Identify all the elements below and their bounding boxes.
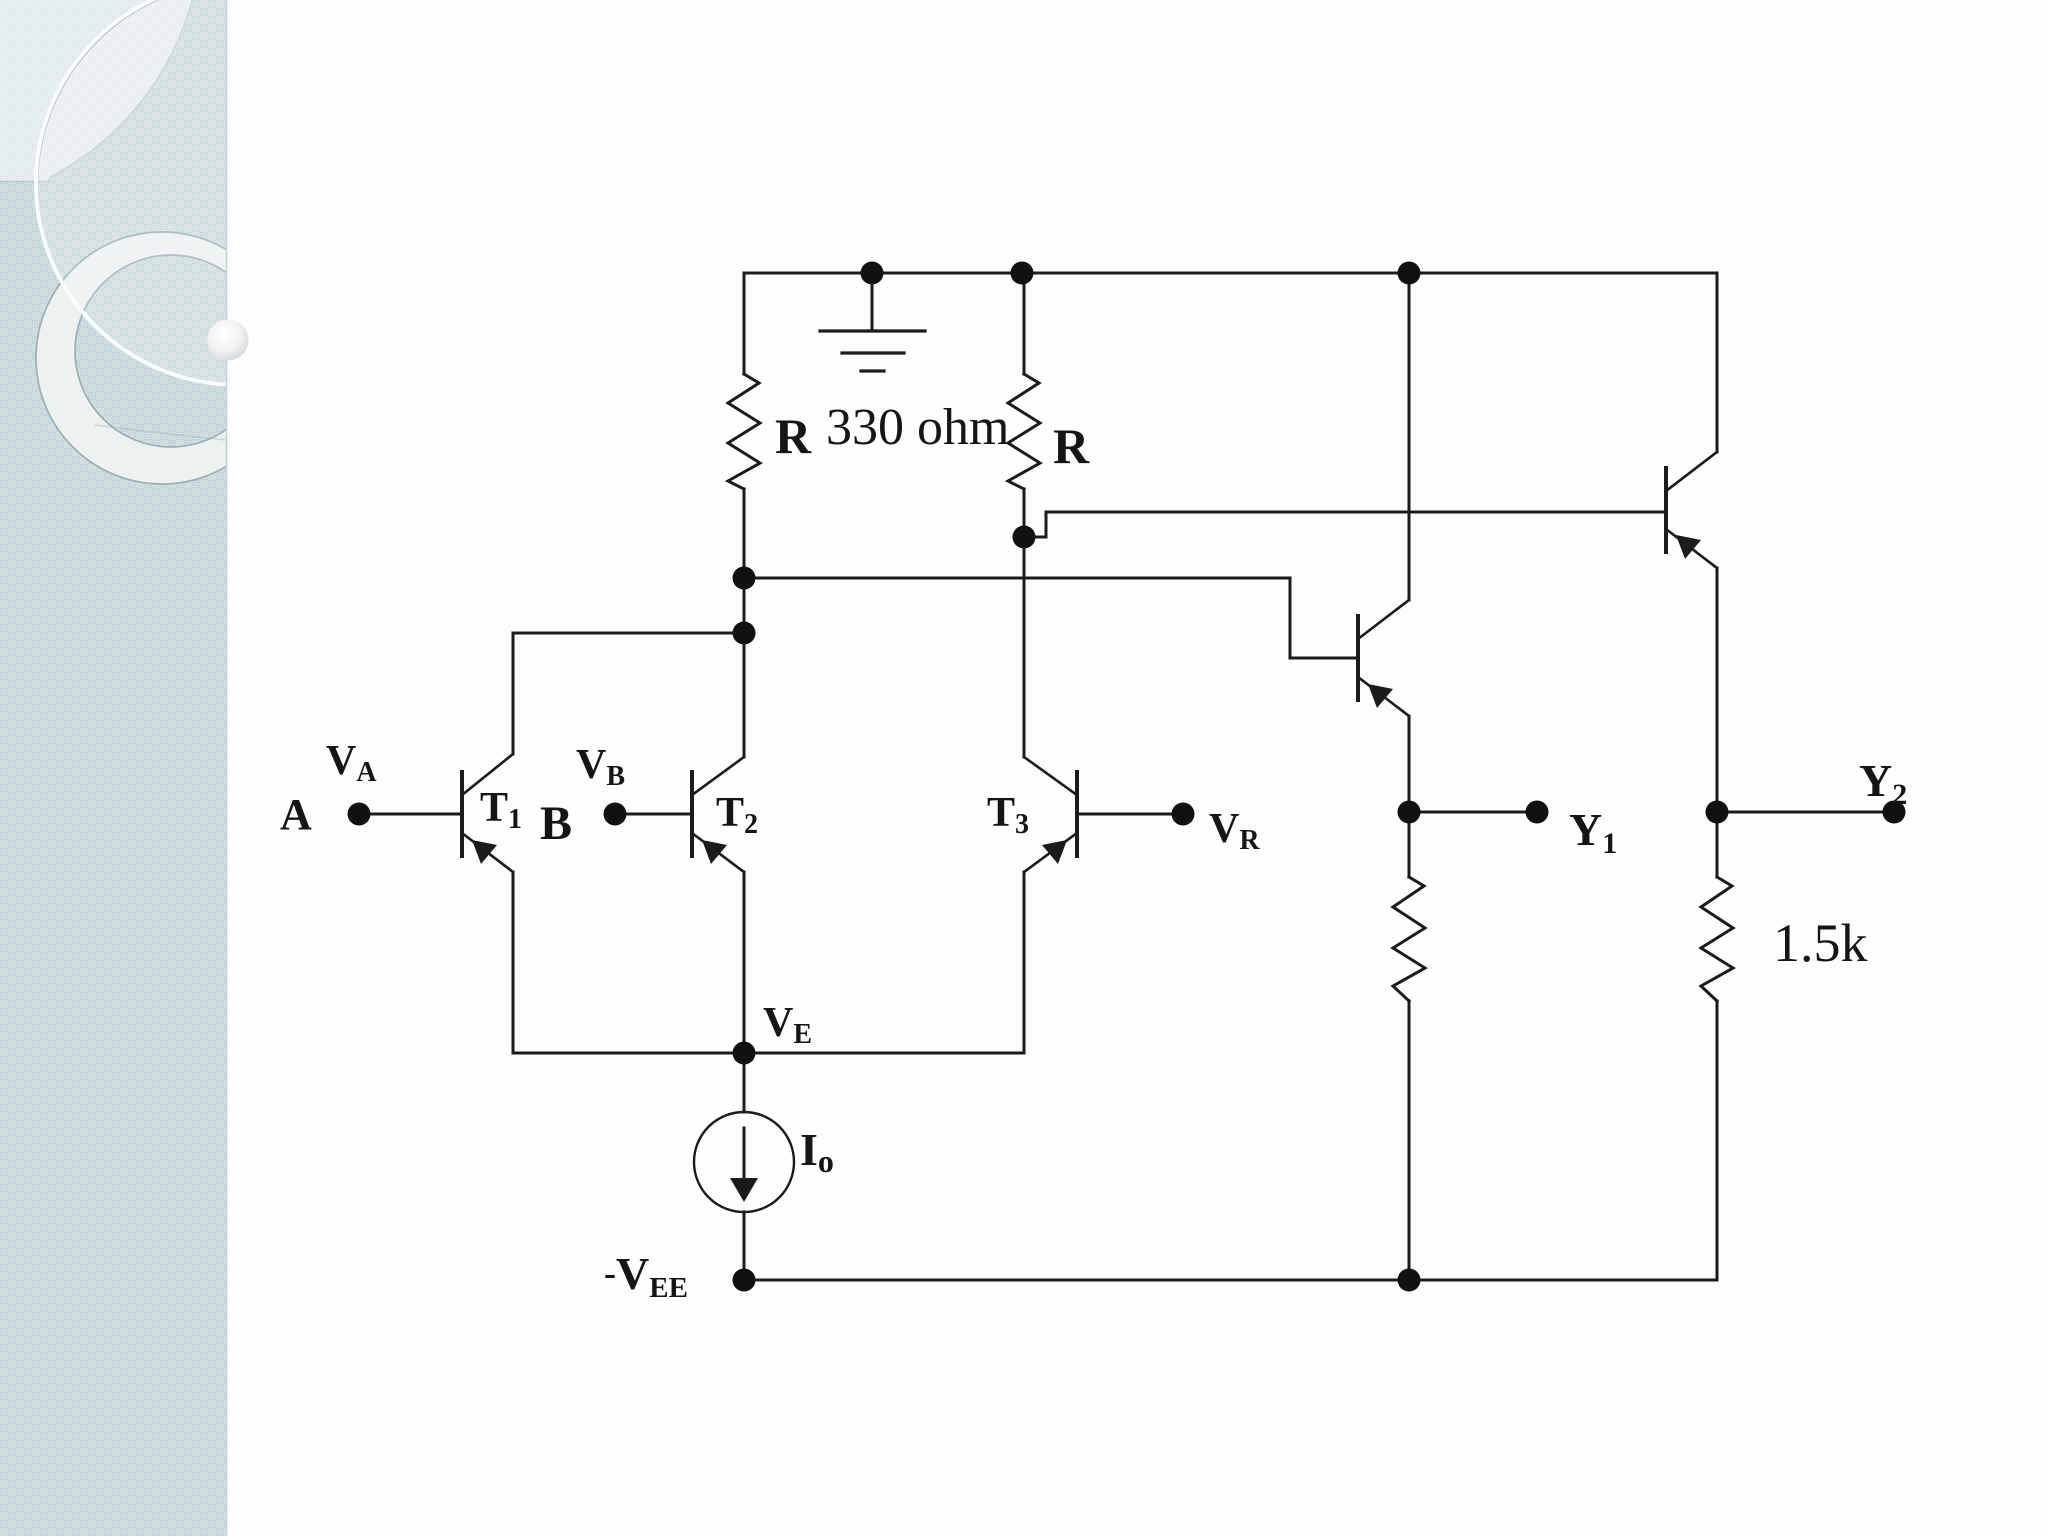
svg-text:R: R <box>1053 418 1090 474</box>
svg-text:VR: VR <box>1209 806 1260 856</box>
svg-text:VA: VA <box>326 738 377 788</box>
svg-text:VB: VB <box>576 742 625 792</box>
svg-text:VE: VE <box>763 1000 812 1050</box>
svg-text:Y1: Y1 <box>1569 804 1617 860</box>
svg-text:T3: T3 <box>987 790 1029 840</box>
svg-text:T2: T2 <box>716 790 758 840</box>
svg-text:Y2: Y2 <box>1859 755 1907 811</box>
svg-text:B: B <box>540 797 572 850</box>
svg-text:Io: Io <box>800 1124 834 1179</box>
svg-text:-VEE: -VEE <box>604 1248 688 1304</box>
svg-text:T1: T1 <box>480 785 522 835</box>
svg-text:A: A <box>280 790 312 839</box>
svg-text:R: R <box>775 408 812 464</box>
svg-text:330 ohm: 330 ohm <box>826 399 1009 456</box>
svg-text:1.5k: 1.5k <box>1773 913 1868 973</box>
